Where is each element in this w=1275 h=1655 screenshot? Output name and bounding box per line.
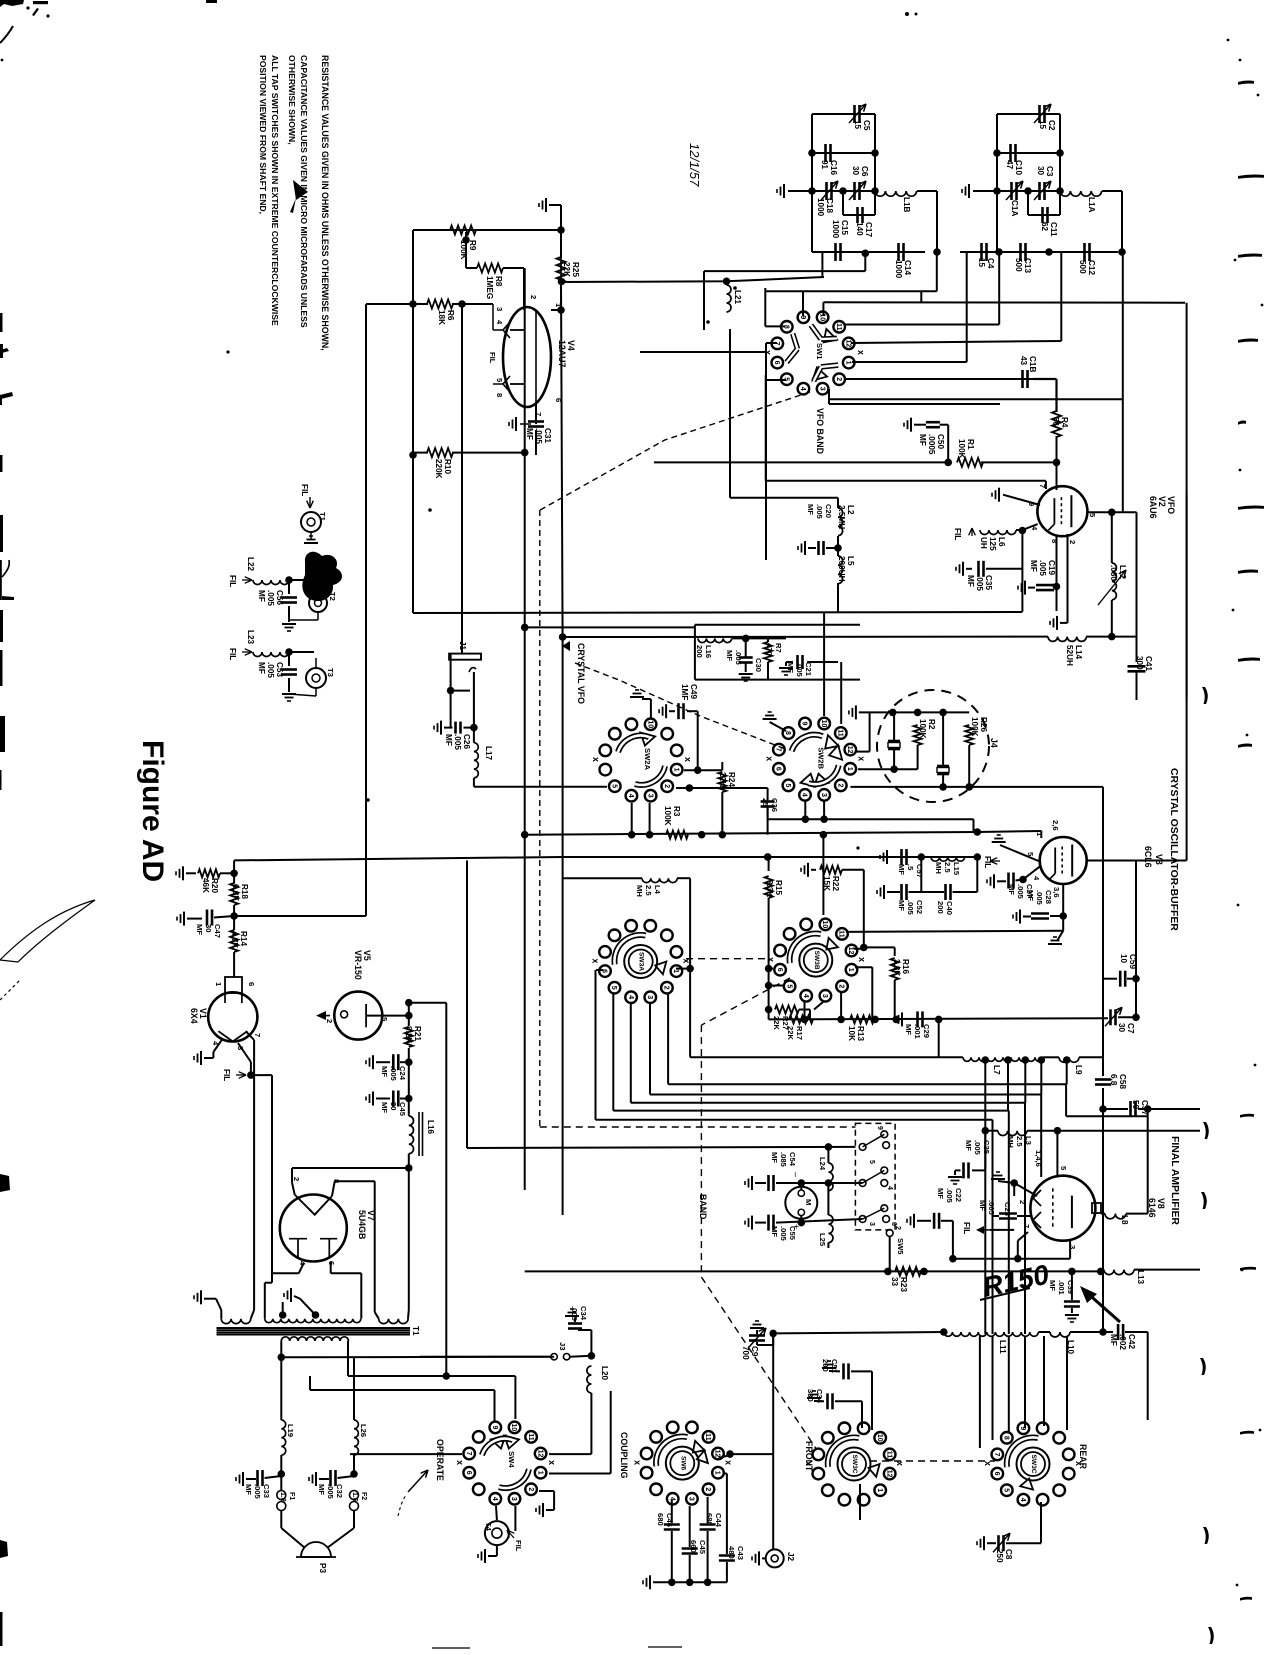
svg-text:R2422K: R2422K bbox=[718, 772, 736, 787]
svg-text:FIL: FIL bbox=[514, 1540, 523, 1552]
svg-text:2: 2 bbox=[704, 1487, 711, 1491]
svg-text:2: 2 bbox=[529, 295, 538, 299]
svg-text:R186.8K: R186.8K bbox=[231, 884, 249, 901]
svg-text:C17140: C17140 bbox=[855, 222, 873, 237]
svg-text:2: 2 bbox=[894, 1226, 901, 1230]
svg-text:1: 1 bbox=[672, 768, 679, 772]
svg-text:BAND: BAND bbox=[698, 1194, 708, 1219]
svg-text:5: 5 bbox=[868, 1160, 875, 1164]
svg-text:10: 10 bbox=[821, 921, 828, 929]
svg-text:C12500: C12500 bbox=[1078, 260, 1096, 275]
svg-text:x: x bbox=[723, 1460, 733, 1465]
svg-text:L21: L21 bbox=[733, 290, 742, 305]
svg-text:6: 6 bbox=[993, 1472, 1000, 1476]
svg-text:L16200: L16200 bbox=[695, 645, 713, 658]
svg-text:2: 2 bbox=[1018, 1200, 1027, 1204]
svg-text:1,4,6: 1,4,6 bbox=[1034, 1150, 1043, 1167]
svg-text:L16: L16 bbox=[426, 1120, 435, 1135]
svg-text:L17: L17 bbox=[484, 746, 493, 761]
svg-text:C46680: C46680 bbox=[656, 1513, 674, 1527]
svg-text:x: x bbox=[895, 1461, 905, 1466]
svg-text:FIL: FIL bbox=[228, 648, 237, 660]
svg-text:x: x bbox=[983, 1461, 993, 1466]
svg-text:x: x bbox=[857, 756, 867, 761]
svg-text:8: 8 bbox=[1050, 539, 1059, 543]
svg-text:11: 11 bbox=[835, 323, 842, 331]
svg-text:3: 3 bbox=[688, 1497, 695, 1501]
svg-text:T1: T1 bbox=[411, 1326, 420, 1336]
svg-text:3: 3 bbox=[821, 994, 828, 998]
svg-text:7: 7 bbox=[993, 1452, 1000, 1456]
svg-text:FRONT: FRONT bbox=[804, 1441, 814, 1472]
svg-text:C34330: C34330 bbox=[806, 1389, 824, 1404]
svg-text:T3: T3 bbox=[326, 668, 335, 677]
svg-text:6: 6 bbox=[775, 767, 782, 771]
svg-text:2: 2 bbox=[1068, 540, 1077, 544]
svg-text:L7: L7 bbox=[992, 1065, 1001, 1075]
svg-text:L8: L8 bbox=[1120, 1215, 1129, 1225]
svg-text:L26: L26 bbox=[359, 1424, 368, 1437]
svg-text:T4: T4 bbox=[484, 1522, 493, 1532]
svg-text:x: x bbox=[683, 757, 693, 762]
svg-text:6: 6 bbox=[554, 398, 563, 402]
svg-text:V3: V3 bbox=[1154, 854, 1164, 865]
svg-text:L22: L22 bbox=[246, 557, 255, 572]
svg-text:C1A: C1A bbox=[1010, 200, 1019, 216]
svg-text:2: 2 bbox=[325, 1019, 334, 1023]
svg-text:x: x bbox=[856, 350, 866, 355]
svg-text:2: 2 bbox=[527, 1487, 534, 1491]
svg-text:FIL: FIL bbox=[228, 575, 237, 587]
svg-text:L23: L23 bbox=[246, 630, 255, 645]
svg-text:FIL: FIL bbox=[488, 352, 497, 364]
svg-text:C41300: C41300 bbox=[1135, 656, 1153, 671]
svg-text:2: 2 bbox=[292, 1177, 301, 1181]
svg-text:2: 2 bbox=[663, 986, 670, 990]
svg-text:Figure AD: Figure AD bbox=[136, 740, 169, 882]
svg-text:L19: L19 bbox=[286, 1424, 295, 1437]
svg-text:12: 12 bbox=[885, 1470, 892, 1478]
svg-text:R1722K: R1722K bbox=[786, 1026, 804, 1040]
svg-text:3: 3 bbox=[818, 387, 825, 391]
svg-text:C45660: C45660 bbox=[689, 1540, 707, 1555]
svg-text:10: 10 bbox=[820, 720, 827, 728]
svg-text:x: x bbox=[547, 1460, 557, 1465]
svg-text:SW3C: SW3C bbox=[851, 1454, 858, 1473]
svg-text:C23: C23 bbox=[1003, 1202, 1012, 1216]
svg-text:FIL: FIL bbox=[300, 484, 309, 496]
svg-text:x: x bbox=[766, 957, 776, 962]
svg-text:R153.3K: R153.3K bbox=[765, 880, 783, 897]
svg-text:4: 4 bbox=[668, 1497, 675, 1501]
svg-text:R144.7K: R144.7K bbox=[230, 931, 248, 948]
svg-text:CRYSTAL OSCILLATOR-BUFFER: CRYSTAL OSCILLATOR-BUFFER bbox=[1168, 768, 1179, 931]
svg-text:4: 4 bbox=[799, 387, 806, 391]
svg-text:L1A: L1A bbox=[1087, 197, 1096, 213]
svg-text:C44680: C44680 bbox=[705, 1513, 723, 1528]
svg-text:L24: L24 bbox=[818, 1157, 827, 1171]
svg-text:J2: J2 bbox=[786, 1552, 795, 1562]
svg-text:x: x bbox=[632, 1460, 642, 1465]
svg-text:8: 8 bbox=[1003, 1436, 1010, 1440]
svg-text:5: 5 bbox=[784, 783, 791, 787]
svg-text:1: 1 bbox=[672, 969, 679, 973]
svg-text:9: 9 bbox=[876, 1126, 883, 1130]
svg-text:11: 11 bbox=[837, 729, 844, 737]
svg-text:SW2B: SW2B bbox=[817, 747, 826, 769]
svg-text:11: 11 bbox=[527, 1433, 534, 1441]
svg-text:SW3C: SW3C bbox=[1030, 1454, 1037, 1473]
svg-text:T2: T2 bbox=[328, 592, 337, 601]
svg-text:12: 12 bbox=[847, 947, 854, 955]
svg-text:7: 7 bbox=[1038, 484, 1047, 488]
svg-text:3: 3 bbox=[868, 1222, 875, 1226]
svg-text:P3: P3 bbox=[318, 1563, 327, 1573]
svg-text:5: 5 bbox=[785, 984, 792, 988]
svg-text:L9: L9 bbox=[1074, 1065, 1083, 1075]
svg-text:4: 4 bbox=[802, 994, 809, 998]
svg-text:SW6: SW6 bbox=[679, 1456, 686, 1471]
svg-text:SW4: SW4 bbox=[507, 1451, 516, 1468]
svg-text:R2046K: R2046K bbox=[201, 878, 219, 893]
svg-text:9: 9 bbox=[491, 1425, 498, 1429]
svg-text:8: 8 bbox=[495, 393, 504, 397]
svg-text:4: 4 bbox=[1019, 1498, 1026, 1502]
svg-text:C491MF: C491MF bbox=[680, 684, 698, 700]
svg-text:L25: L25 bbox=[818, 1233, 827, 1247]
svg-text:R1310K: R1310K bbox=[847, 1026, 865, 1041]
svg-text:5: 5 bbox=[1003, 1488, 1010, 1492]
svg-text:12: 12 bbox=[536, 1450, 543, 1458]
svg-text:OTHERWISE SHOWN,: OTHERWISE SHOWN, bbox=[287, 55, 297, 145]
svg-text:FIL: FIL bbox=[983, 856, 992, 868]
svg-text:4: 4 bbox=[627, 995, 634, 999]
svg-text:x: x bbox=[591, 757, 601, 762]
svg-text:10: 10 bbox=[510, 1424, 517, 1432]
svg-text:6: 6 bbox=[776, 968, 783, 972]
svg-text:C34.005: C34.005 bbox=[570, 1306, 588, 1322]
svg-text:OPERATE: OPERATE bbox=[435, 1439, 445, 1481]
svg-text:3: 3 bbox=[510, 1497, 517, 1501]
svg-text:6CL6: 6CL6 bbox=[1143, 846, 1153, 868]
svg-text:C13500: C13500 bbox=[1014, 258, 1032, 273]
svg-text:R2215K: R2215K bbox=[822, 876, 840, 891]
svg-text:L11: L11 bbox=[998, 1340, 1007, 1354]
svg-text:L12.080: L12.080 bbox=[1109, 565, 1127, 581]
svg-text:1: 1 bbox=[847, 968, 854, 972]
svg-text:2: 2 bbox=[835, 377, 842, 381]
svg-text:REAR: REAR bbox=[1078, 1444, 1088, 1470]
svg-text:2: 2 bbox=[837, 783, 844, 787]
svg-text:5: 5 bbox=[610, 986, 617, 990]
svg-text:L1B: L1B bbox=[902, 197, 911, 213]
svg-text:R2522K: R2522K bbox=[562, 262, 580, 277]
svg-text:x: x bbox=[765, 756, 775, 761]
svg-text:C40200: C40200 bbox=[936, 901, 954, 915]
svg-text:1: 1 bbox=[844, 361, 851, 365]
svg-text:12: 12 bbox=[846, 746, 853, 754]
svg-text:4: 4 bbox=[491, 1497, 498, 1501]
svg-text:J4: J4 bbox=[989, 738, 999, 748]
svg-text:–: – bbox=[791, 1172, 801, 1177]
svg-text:CRYSTAL VFO: CRYSTAL VFO bbox=[576, 643, 586, 704]
svg-text:1: 1 bbox=[536, 1471, 543, 1475]
svg-text:6: 6 bbox=[247, 982, 256, 986]
svg-text:3: 3 bbox=[820, 793, 827, 797]
svg-text:6: 6 bbox=[465, 1471, 472, 1475]
svg-text:RESISTANCE VALUES GIVEN IN OHM: RESISTANCE VALUES GIVEN IN OHMS UNLESS O… bbox=[320, 55, 330, 351]
svg-text:VFO BAND: VFO BAND bbox=[815, 408, 825, 454]
svg-text:2: 2 bbox=[838, 984, 845, 988]
svg-text:COUPLING: COUPLING bbox=[619, 1432, 629, 1479]
svg-text:1: 1 bbox=[714, 1471, 721, 1475]
svg-text:1: 1 bbox=[876, 1488, 883, 1492]
svg-text:C43480: C43480 bbox=[727, 1546, 745, 1560]
svg-text:11: 11 bbox=[838, 930, 845, 938]
svg-text:POSITION VIEWED FROM SHAFT END: POSITION VIEWED FROM SHAFT END, bbox=[258, 55, 268, 214]
svg-text:R163.3K: R163.3K bbox=[892, 959, 910, 976]
svg-text:3: 3 bbox=[646, 995, 653, 999]
svg-text:x: x bbox=[857, 957, 867, 962]
svg-text:1: 1 bbox=[846, 767, 853, 771]
svg-text:3: 3 bbox=[495, 307, 504, 311]
svg-text:T1: T1 bbox=[318, 512, 327, 522]
svg-text:FIL: FIL bbox=[953, 528, 962, 540]
svg-text:6: 6 bbox=[773, 361, 780, 365]
svg-text:9: 9 bbox=[801, 722, 808, 726]
svg-text:x: x bbox=[455, 1460, 465, 1465]
svg-text:12: 12 bbox=[844, 340, 851, 348]
svg-text:L13: L13 bbox=[1136, 1270, 1145, 1285]
svg-text:4: 4 bbox=[801, 793, 808, 797]
svg-text:4: 4 bbox=[627, 794, 634, 798]
svg-text:7: 7 bbox=[1022, 1224, 1031, 1228]
svg-text:J3: J3 bbox=[558, 1342, 567, 1350]
svg-text:FIL: FIL bbox=[962, 1222, 971, 1234]
svg-text:12/1/57: 12/1/57 bbox=[687, 143, 702, 187]
svg-text:11: 11 bbox=[704, 1433, 711, 1441]
svg-text:2: 2 bbox=[663, 784, 670, 788]
svg-text:FIL: FIL bbox=[222, 1069, 231, 1081]
svg-text:11: 11 bbox=[885, 1451, 892, 1459]
svg-text:7: 7 bbox=[253, 1033, 262, 1037]
svg-text:4: 4 bbox=[886, 1186, 893, 1190]
svg-text:R218.2K: R218.2K bbox=[404, 1026, 422, 1043]
svg-text:SW3A: SW3A bbox=[638, 952, 645, 971]
svg-text:5: 5 bbox=[611, 784, 618, 788]
svg-text:L20: L20 bbox=[600, 1366, 609, 1381]
svg-text:SW3B: SW3B bbox=[813, 951, 820, 970]
svg-text:7: 7 bbox=[775, 748, 782, 752]
svg-text:M: M bbox=[804, 1199, 813, 1205]
svg-text:C30: C30 bbox=[754, 658, 763, 672]
svg-text:x: x bbox=[591, 959, 601, 964]
svg-text:SW2A: SW2A bbox=[643, 748, 652, 770]
svg-text:12: 12 bbox=[714, 1450, 721, 1458]
svg-text:2,6: 2,6 bbox=[1051, 820, 1060, 831]
svg-text:ALL TAP SWITCHES SHOWN IN EXTR: ALL TAP SWITCHES SHOWN IN EXTREME COUNTE… bbox=[270, 55, 280, 326]
svg-text:FINAL AMPLIFIER: FINAL AMPLIFIER bbox=[1169, 1136, 1180, 1225]
svg-text:10: 10 bbox=[876, 1434, 883, 1442]
svg-text:SW1: SW1 bbox=[815, 343, 824, 360]
svg-text:7: 7 bbox=[465, 1452, 472, 1456]
svg-text:3: 3 bbox=[646, 794, 653, 798]
svg-text:10: 10 bbox=[646, 720, 653, 728]
svg-text:C51200: C51200 bbox=[821, 1359, 839, 1374]
svg-text:SW5: SW5 bbox=[896, 1238, 905, 1255]
